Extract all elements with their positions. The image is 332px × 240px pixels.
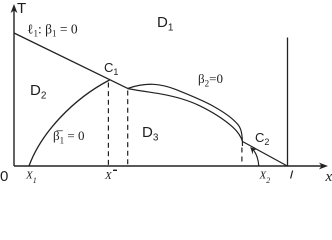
annotation arrow to C2 point — [253, 150, 259, 166]
svg-text:T: T — [17, 0, 26, 17]
label 1 tick — [291, 171, 293, 179]
curve beta2 = 0 upper branch (hump) — [128, 84, 243, 146]
x axis arrowhead — [319, 163, 328, 170]
svg-text:β̅1 = 0: β̅1 = 0 — [53, 128, 84, 146]
dashed vertical at x=127.7 — [127, 91, 129, 167]
svg-text:X: X — [104, 170, 113, 182]
straight segment C2 to (1,0) — [243, 142, 288, 167]
line l1 (beta1 = 0) — [14, 33, 128, 89]
dashed vertical at C1 / x=108 — [107, 83, 109, 167]
curve beta1bar = 0 — [29, 80, 110, 166]
vertical line at x=1 — [287, 38, 289, 167]
svg-text:0: 0 — [0, 168, 8, 185]
T axis arrowhead — [11, 4, 18, 13]
svg-text:x: x — [325, 169, 332, 185]
x axis (horizontal) — [14, 165, 322, 167]
T axis (vertical) — [13, 10, 15, 166]
lower branch curve — [128, 89, 243, 142]
svg-text:β2=0: β2=0 — [198, 71, 223, 89]
dashed vertical at X2 / x=241.9 — [241, 148, 243, 167]
